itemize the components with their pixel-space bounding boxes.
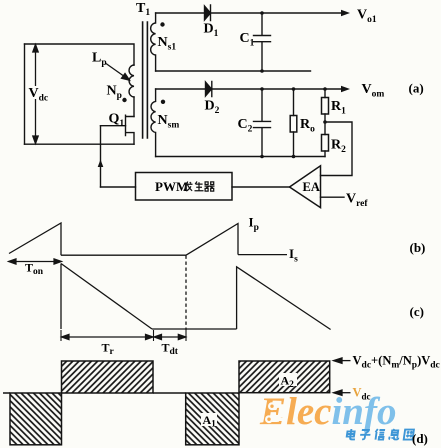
svg-text:(d): (d) [412, 431, 428, 446]
wire mid level lead-in [3, 392, 10, 394]
diode D2 [206, 82, 212, 97]
waveform b baseline [61, 254, 186, 256]
wire D1 to Vo1 [211, 12, 343, 14]
wire bottom output 1 [156, 70, 311, 72]
svg-text:EA: EA [303, 180, 320, 194]
wire divider tap to EA input [321, 122, 353, 176]
svg-text:(a): (a) [409, 81, 424, 96]
block low A1 hatched [186, 393, 239, 445]
arrow Ton double-headed [9, 259, 62, 264]
logo ElecInfo watermark [259, 390, 396, 433]
op-amp EA error amplifier [290, 166, 321, 208]
label 发生器 hanzi [184, 182, 215, 192]
logo E circuit trace cutouts [265, 402, 290, 423]
capacitor C2 [254, 89, 271, 157]
wire D2 to Vom [212, 88, 342, 90]
resistor Ro [293, 89, 295, 157]
arrow Lp pointer [106, 64, 130, 81]
svg-text:PWM: PWM [155, 179, 188, 194]
arrow level Vdc+(Nm/Np)Vdc [334, 358, 351, 363]
node dot Nsm polarity [161, 100, 165, 104]
node junction C1 bottom [260, 69, 264, 73]
wire Vref [321, 196, 345, 198]
arrow PWM drive up [98, 160, 104, 168]
wire top rail primary [25, 44, 135, 65]
waveform c secondary current cycle 1 [61, 264, 331, 342]
wire EA output to PWM [232, 186, 290, 188]
PWM generator box [136, 173, 233, 201]
label A1 [201, 413, 217, 426]
wire top output m [156, 88, 206, 90]
node junction C2 top [260, 87, 264, 91]
node junction divider [323, 120, 327, 124]
tick Tr left [60, 330, 62, 341]
wire top output 1 [156, 12, 205, 14]
waveform b primary current ramp 1 [9, 223, 287, 330]
inductor Ns1 secondary winding [151, 13, 156, 71]
diode D1 [205, 5, 211, 21]
svg-text:Elecinfo: Elecinfo [259, 390, 396, 433]
waveform b Is shelf [238, 254, 287, 256]
wire Q1 gate [101, 125, 126, 127]
block low 1 hatched [10, 393, 62, 445]
arrow Tdt double-headed [154, 334, 186, 339]
node junction R1 top [323, 87, 327, 91]
tick Tr right [153, 330, 155, 341]
wire bottom rail primary [25, 143, 135, 145]
block high 1 hatched [62, 361, 154, 393]
node junction Ro top [292, 87, 296, 91]
resistor R1 [324, 89, 326, 122]
dashed timing line [185, 256, 187, 331]
arrow Tr double-headed [62, 334, 154, 339]
transformer T1 core [143, 22, 148, 138]
wire left rail [24, 44, 26, 144]
node junction Ro bottom [292, 155, 296, 159]
svg-text:(b): (b) [410, 240, 426, 255]
wire PWM left [101, 186, 136, 188]
waveform c cycle 2 [237, 267, 331, 330]
resistor R2 [324, 122, 326, 157]
wire PWM to gate [100, 126, 102, 187]
arrow output Vo1 [341, 10, 350, 17]
inductor Nsm secondary winding [151, 89, 156, 157]
node dot Ns1 polarity [160, 22, 164, 26]
transistor Q1 [126, 115, 135, 144]
logo 电子信息网 hanzi [346, 429, 414, 440]
wire bottom output m [156, 156, 325, 158]
inductor Np primary winding [129, 65, 134, 97]
waveform b ramp 2 Ip [186, 224, 238, 256]
node junction C1 top [260, 11, 264, 15]
wire primary to Q1 drain [133, 97, 135, 117]
arrow output Vom [341, 86, 350, 93]
label A2 [279, 373, 297, 386]
block high A2 hatched [239, 361, 330, 393]
wire mid level between [153, 392, 186, 394]
capacitor C1 [254, 13, 271, 71]
arrow level Vdc [334, 390, 351, 395]
node dot Np polarity [122, 98, 126, 102]
svg-text:(c): (c) [410, 304, 424, 319]
waveform c baseline [152, 328, 237, 330]
arrow Vdc double-headed [33, 45, 38, 144]
tick Tdt right [185, 330, 187, 341]
node junction C2 bottom [260, 155, 264, 159]
